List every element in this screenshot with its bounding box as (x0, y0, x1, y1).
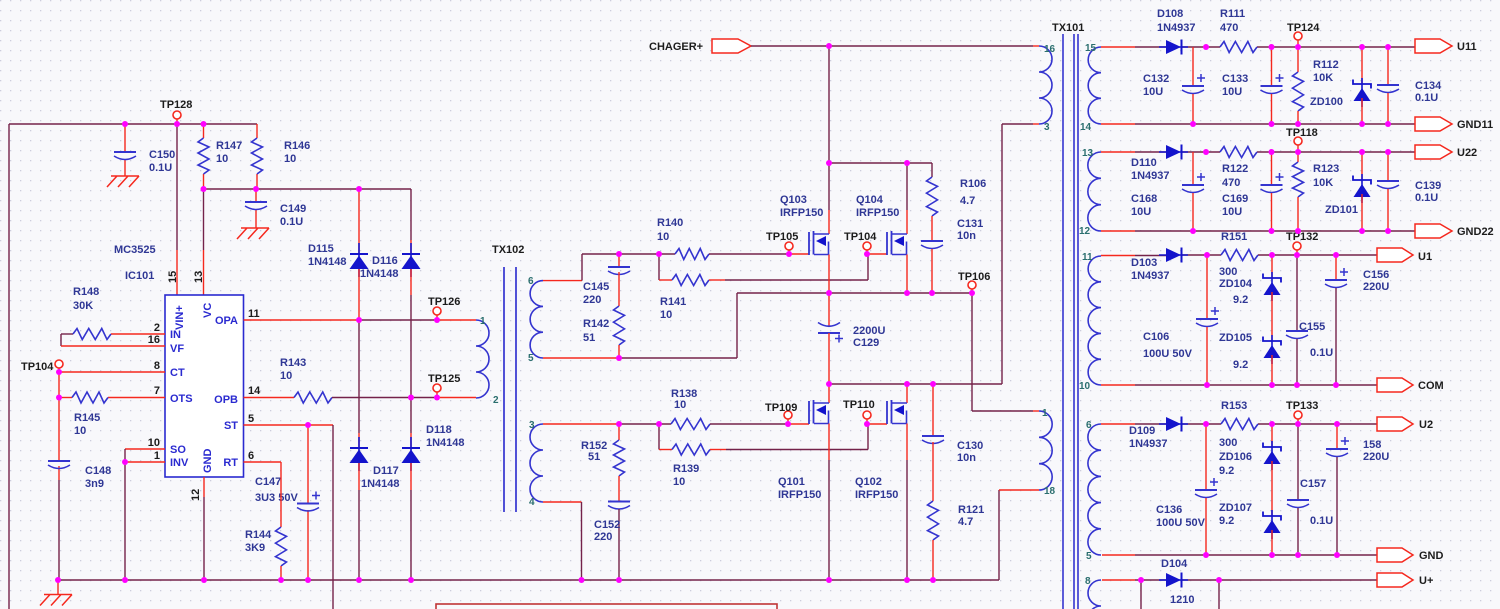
test point TP133 (1286, 400, 1318, 424)
junction (1204, 382, 1210, 388)
resistor R145 (59, 392, 165, 437)
svg-text:16: 16 (1044, 44, 1056, 55)
svg-text:13: 13 (1082, 148, 1094, 159)
test point TP106 (958, 271, 990, 293)
wire TX101 pin3 link (1002, 124, 1039, 384)
junction (785, 421, 791, 427)
diode D115 (308, 189, 369, 320)
svg-text:14: 14 (1080, 122, 1092, 133)
svg-text:1N4148: 1N4148 (361, 478, 400, 490)
junction (1385, 121, 1391, 127)
svg-text:9.2: 9.2 (1219, 465, 1234, 477)
svg-text:3: 3 (529, 420, 535, 431)
svg-text:C169: C169 (1222, 193, 1248, 205)
svg-text:0.1U: 0.1U (1310, 515, 1333, 527)
svg-text:10K: 10K (1313, 177, 1333, 189)
svg-text:5: 5 (1086, 551, 1092, 562)
svg-text:IRFP150: IRFP150 (856, 207, 899, 219)
svg-text:Q102: Q102 (855, 476, 882, 488)
resistor R112 (1293, 47, 1339, 124)
capacitor C169 (1222, 152, 1284, 231)
junction (904, 381, 910, 387)
svg-text:300: 300 (1219, 266, 1237, 278)
svg-text:TP106: TP106 (958, 271, 990, 283)
port U11 (1415, 39, 1477, 53)
transformer TX102 (476, 244, 543, 512)
svg-text:158: 158 (1363, 439, 1381, 451)
port U1 (1377, 248, 1432, 263)
junction (1359, 44, 1365, 50)
junction (201, 577, 207, 583)
svg-text:0.1U: 0.1U (149, 162, 172, 174)
svg-text:OPB: OPB (214, 394, 238, 406)
svg-text:10: 10 (284, 153, 296, 165)
junction (904, 290, 910, 296)
capacitor C148 (48, 461, 111, 490)
diode D117 (350, 320, 400, 580)
wire TX102 pin5 net (543, 293, 737, 358)
wire row2 bottom rail GND22 (1101, 230, 1415, 232)
resistor R147 (198, 124, 242, 189)
resistor R140 (657, 217, 809, 260)
svg-text:GND11: GND11 (1457, 119, 1493, 131)
capacitor C131 (921, 218, 983, 293)
svg-text:3: 3 (1044, 122, 1050, 133)
junction (656, 251, 662, 257)
junction (1203, 44, 1209, 50)
svg-text:TP132: TP132 (1286, 231, 1318, 243)
junction (826, 43, 832, 49)
port U+ (1377, 573, 1433, 587)
ground under C150 (107, 176, 139, 187)
svg-text:3U3 50V: 3U3 50V (255, 492, 298, 504)
svg-text:R143: R143 (280, 357, 306, 369)
capacitor C168 (1131, 152, 1205, 231)
junction (616, 577, 622, 583)
svg-text:D109: D109 (1129, 425, 1155, 437)
svg-text:220: 220 (594, 531, 612, 543)
svg-text:10n: 10n (957, 230, 976, 242)
transformer TX101 (1039, 22, 1101, 609)
wire row3 bottom rail COM (1101, 384, 1377, 386)
svg-text:10U: 10U (1131, 206, 1151, 218)
capacitor C134 (1377, 47, 1442, 124)
svg-text:TP125: TP125 (428, 373, 460, 385)
svg-text:R146: R146 (284, 140, 310, 152)
junction (201, 186, 207, 192)
svg-text:5: 5 (528, 353, 534, 364)
svg-text:C148: C148 (85, 465, 111, 477)
capacitor C145 (583, 254, 630, 306)
wire row5 rail (1102, 580, 1377, 609)
svg-text:U1: U1 (1418, 251, 1432, 263)
junction (305, 422, 311, 428)
svg-text:10: 10 (216, 153, 228, 165)
svg-text:TP110: TP110 (843, 399, 875, 411)
svg-text:16: 16 (148, 334, 160, 346)
svg-text:100U 50V: 100U 50V (1156, 517, 1206, 529)
junction (1334, 552, 1340, 558)
svg-text:0.1U: 0.1U (1415, 192, 1438, 204)
svg-text:10: 10 (673, 476, 685, 488)
junction (356, 186, 362, 192)
junction (408, 395, 414, 401)
junction (969, 290, 975, 296)
junction (122, 577, 128, 583)
svg-text:1N4148: 1N4148 (308, 256, 347, 268)
svg-text:6: 6 (248, 450, 254, 462)
svg-text:10: 10 (1079, 381, 1091, 392)
svg-text:12: 12 (1079, 226, 1091, 237)
svg-text:100U 50V: 100U 50V (1143, 348, 1193, 360)
svg-text:4.7: 4.7 (958, 516, 973, 528)
junction (826, 381, 832, 387)
wire TX102 pin6 net (543, 254, 675, 281)
capacitor C157 (1287, 424, 1333, 555)
junction (305, 577, 311, 583)
svg-text:C145: C145 (583, 281, 609, 293)
hierarchical block outline (436, 604, 777, 609)
svg-text:10U: 10U (1222, 86, 1242, 98)
test point TP128 (160, 99, 192, 124)
junction (56, 395, 62, 401)
port COM (1377, 378, 1444, 392)
svg-text:IRFP150: IRFP150 (855, 489, 898, 501)
svg-text:CT: CT (170, 367, 185, 379)
capacitor C106 (1143, 255, 1219, 385)
svg-text:12: 12 (190, 489, 202, 501)
svg-text:5: 5 (248, 413, 254, 425)
capacitor C152 (594, 502, 630, 581)
svg-text:Q103: Q103 (780, 194, 807, 206)
junction (616, 421, 622, 427)
svg-text:10n: 10n (957, 452, 976, 464)
svg-text:1N4937: 1N4937 (1157, 22, 1196, 34)
wire TX101 pin18 link (999, 490, 1039, 580)
svg-text:IN: IN (170, 329, 181, 341)
junction (1269, 228, 1275, 234)
junction (1359, 228, 1365, 234)
svg-text:U+: U+ (1419, 575, 1433, 587)
junction (826, 290, 832, 296)
svg-text:ZD107: ZD107 (1219, 502, 1252, 514)
svg-text:C150: C150 (149, 149, 175, 161)
junction (122, 121, 128, 127)
junction (1333, 382, 1339, 388)
svg-text:C155: C155 (1299, 321, 1325, 333)
svg-text:R111: R111 (1220, 8, 1245, 20)
wire TP106 to TX101 pin1 (972, 293, 1039, 411)
svg-text:30K: 30K (73, 300, 93, 312)
wire left border vertical (8, 124, 10, 609)
svg-text:C152: C152 (594, 519, 620, 531)
svg-text:1N4937: 1N4937 (1131, 270, 1170, 282)
junction (1385, 228, 1391, 234)
junction (408, 577, 414, 583)
svg-text:R153: R153 (1221, 400, 1247, 412)
resistor R122 (1220, 147, 1257, 190)
junction (930, 381, 936, 387)
svg-text:C147: C147 (255, 476, 281, 488)
junction (1269, 382, 1275, 388)
capacitor C136 (1156, 424, 1218, 555)
svg-text:1N4937: 1N4937 (1131, 170, 1170, 182)
junction (864, 251, 870, 257)
svg-text:1210: 1210 (1170, 594, 1194, 606)
svg-text:TP104: TP104 (21, 361, 54, 373)
svg-text:R122: R122 (1222, 163, 1248, 175)
test point TP104 gate (844, 231, 877, 254)
port U22 (1415, 145, 1477, 159)
svg-text:1N4148: 1N4148 (426, 437, 465, 449)
svg-text:C131: C131 (957, 218, 983, 230)
svg-text:TX101: TX101 (1052, 22, 1084, 34)
ground under C149 (237, 228, 269, 239)
wire SO pin10 (125, 449, 165, 462)
wire TX102 pin4 net (543, 502, 582, 580)
svg-text:GND22: GND22 (1457, 226, 1494, 238)
junction (904, 160, 910, 166)
resistor R142 (583, 306, 625, 358)
junction (930, 577, 936, 583)
zener ZD101 (1325, 152, 1371, 231)
capacitor C147 (255, 425, 320, 580)
junction (1295, 552, 1301, 558)
junction (929, 290, 935, 296)
svg-text:2: 2 (154, 322, 160, 334)
svg-text:D117: D117 (373, 465, 399, 477)
test point TP132 (1286, 231, 1318, 255)
svg-text:IRFP150: IRFP150 (778, 489, 821, 501)
diode D104 (1159, 558, 1194, 606)
wire row1 top rail (1101, 46, 1415, 48)
svg-text:1N4148: 1N4148 (360, 268, 399, 280)
zener ZD105 (1219, 332, 1281, 385)
svg-text:1: 1 (1042, 408, 1048, 419)
resistor R152 (581, 424, 625, 502)
svg-text:18: 18 (1044, 486, 1056, 497)
port GND22 (1415, 224, 1494, 238)
wire bottom ground rail (58, 579, 999, 581)
wire pin13 vertical (203, 189, 205, 295)
port U2 (1377, 417, 1433, 431)
wire INV pin1 (125, 462, 165, 580)
svg-text:OPA: OPA (215, 315, 238, 327)
svg-text:R140: R140 (657, 217, 683, 229)
svg-text:R147: R147 (216, 140, 242, 152)
svg-text:220U: 220U (1363, 281, 1389, 293)
test point TP104 (21, 360, 63, 373)
port CHAGER+ (649, 39, 751, 53)
transistor Q102 (855, 384, 907, 580)
junction (1295, 121, 1301, 127)
svg-text:4: 4 (529, 497, 535, 508)
ground bottom-left (40, 580, 72, 606)
diode D103 (1131, 248, 1188, 283)
wire pin15 vertical (176, 124, 178, 295)
svg-text:R142: R142 (583, 318, 609, 330)
junction (356, 577, 362, 583)
svg-text:Q104: Q104 (856, 194, 884, 206)
svg-text:D108: D108 (1157, 8, 1183, 20)
svg-text:1: 1 (154, 450, 160, 462)
junction (864, 421, 870, 427)
svg-text:R145: R145 (74, 412, 100, 424)
junction (201, 121, 207, 127)
svg-text:C129: C129 (853, 337, 879, 349)
svg-text:9.2: 9.2 (1233, 359, 1248, 371)
junction (1269, 149, 1275, 155)
svg-text:D104: D104 (1161, 558, 1188, 570)
junction (1269, 252, 1275, 258)
junction (1138, 577, 1144, 583)
svg-text:6: 6 (528, 276, 534, 287)
junction (579, 577, 585, 583)
svg-text:C168: C168 (1131, 193, 1157, 205)
svg-text:TP109: TP109 (765, 402, 797, 414)
svg-text:300: 300 (1219, 437, 1237, 449)
transistor Q103 (780, 163, 829, 293)
junction (253, 186, 259, 192)
svg-text:10U: 10U (1143, 86, 1163, 98)
svg-text:VIN+: VIN+ (174, 305, 186, 330)
svg-text:10: 10 (657, 231, 669, 243)
svg-text:GND: GND (1419, 550, 1444, 562)
test point TP110 (843, 399, 875, 424)
svg-text:9.2: 9.2 (1233, 294, 1248, 306)
wire GND pin12 (203, 477, 205, 580)
svg-text:C134: C134 (1415, 80, 1442, 92)
svg-text:ZD101: ZD101 (1325, 204, 1358, 216)
resistor R121 (928, 501, 985, 580)
svg-text:ZD104: ZD104 (1219, 278, 1253, 290)
wire top-left rail (9, 123, 257, 125)
svg-text:TX102: TX102 (492, 244, 524, 256)
wire row2 top rail (1101, 151, 1415, 153)
svg-text:R123: R123 (1313, 163, 1339, 175)
svg-text:C149: C149 (280, 203, 306, 215)
svg-text:VC: VC (202, 303, 214, 318)
svg-text:R121: R121 (958, 504, 984, 516)
wire RT pin6 net (244, 462, 282, 527)
junction (1190, 228, 1196, 234)
capacitor C129 (818, 293, 885, 384)
svg-text:10K: 10K (1313, 72, 1333, 84)
wire CT pin8 (59, 371, 165, 373)
junction (1269, 121, 1275, 127)
resistor R139 (659, 424, 887, 488)
junction (1203, 149, 1209, 155)
svg-text:8: 8 (1085, 576, 1091, 587)
junction (1269, 421, 1275, 427)
svg-text:220U: 220U (1363, 451, 1389, 463)
diode D116 (360, 189, 421, 398)
junction (1295, 228, 1301, 234)
junction (356, 317, 362, 323)
junction (1203, 421, 1209, 427)
svg-text:C156: C156 (1363, 269, 1389, 281)
svg-text:8: 8 (154, 360, 160, 372)
svg-text:D115: D115 (308, 243, 334, 255)
zener ZD100 (1310, 47, 1371, 124)
svg-text:10: 10 (280, 370, 292, 382)
svg-text:470: 470 (1222, 177, 1240, 189)
svg-text:13: 13 (193, 271, 205, 283)
wire TP104 vertical (58, 372, 60, 580)
svg-text:2: 2 (493, 395, 499, 406)
diode D109 (1129, 417, 1188, 451)
junction (1203, 552, 1209, 558)
svg-text:10: 10 (660, 309, 672, 321)
resistor R146 (252, 124, 311, 189)
svg-text:51: 51 (588, 451, 600, 463)
test point TP124 (1287, 22, 1320, 47)
svg-text:C106: C106 (1143, 331, 1169, 343)
svg-text:R148: R148 (73, 286, 99, 298)
wire row4 top rail (1101, 423, 1377, 425)
svg-text:D118: D118 (426, 424, 452, 436)
svg-text:GND: GND (202, 449, 214, 474)
junction (786, 251, 792, 257)
svg-text:7: 7 (154, 385, 160, 397)
zener ZD104 (1219, 255, 1281, 341)
junction (1294, 382, 1300, 388)
junction (278, 577, 284, 583)
svg-text:R106: R106 (960, 178, 986, 190)
op-amp IC U101 box MC3525 (114, 244, 261, 501)
svg-text:Q101: Q101 (778, 476, 805, 488)
svg-text:ZD105: ZD105 (1219, 332, 1252, 344)
svg-text:TP104: TP104 (844, 231, 877, 243)
wire OPA pin11 net (244, 319, 477, 321)
svg-text:2200U: 2200U (853, 325, 885, 337)
zener ZD106 (1219, 424, 1281, 516)
svg-text:R144: R144 (245, 529, 272, 541)
svg-text:15: 15 (1085, 43, 1097, 54)
diode D118 (402, 398, 465, 581)
wire upper drain rail (829, 162, 932, 164)
capacitor C149 (245, 189, 306, 228)
svg-text:R141: R141 (660, 296, 686, 308)
svg-text:R151: R151 (1221, 231, 1247, 243)
svg-text:6: 6 (1086, 420, 1092, 431)
svg-text:51: 51 (583, 332, 595, 344)
junction (1385, 44, 1391, 50)
svg-text:0.1U: 0.1U (1415, 92, 1438, 104)
wire lower drain rail (829, 383, 1002, 385)
svg-text:9.2: 9.2 (1219, 515, 1234, 527)
junction (122, 459, 128, 465)
transistor Q101 (778, 384, 829, 580)
svg-text:0.1U: 0.1U (1310, 347, 1333, 359)
svg-text:VF: VF (170, 343, 184, 355)
svg-text:C130: C130 (957, 440, 983, 452)
test point TP125 (428, 373, 460, 398)
junction (56, 369, 62, 375)
wire drain feed vertical (828, 46, 830, 163)
svg-text:TP124: TP124 (1287, 22, 1320, 34)
junction (1333, 252, 1339, 258)
svg-text:220: 220 (583, 294, 601, 306)
capacitor C132 (1143, 47, 1205, 124)
junction (1190, 121, 1196, 127)
junction (616, 355, 622, 361)
junction (434, 317, 440, 323)
wire TX102 pin3 net (543, 423, 671, 425)
junction (656, 421, 662, 427)
svg-text:R112: R112 (1313, 59, 1339, 71)
junction (1295, 44, 1301, 50)
